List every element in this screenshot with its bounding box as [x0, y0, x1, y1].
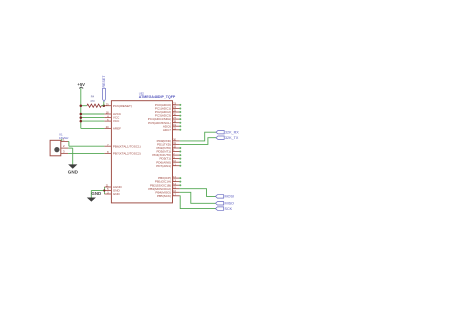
svg-text:GND: GND — [113, 192, 121, 196]
svg-text:PB7(XTAL2/TOSC2): PB7(XTAL2/TOSC2) — [113, 152, 141, 156]
svg-text:ADC7: ADC7 — [163, 128, 171, 132]
svg-text:VCC: VCC — [113, 119, 120, 123]
svg-text:RESET: RESET — [102, 75, 106, 88]
svg-text:MISO: MISO — [225, 202, 235, 206]
svg-text:32K_RX: 32K_RX — [225, 131, 239, 135]
svg-text:PB5(SCK): PB5(SCK) — [157, 194, 171, 198]
svg-text:MOSI: MOSI — [225, 195, 234, 199]
svg-text:32K_TX: 32K_TX — [225, 136, 239, 140]
svg-text:AREF: AREF — [113, 127, 121, 131]
svg-text:2: 2 — [63, 144, 65, 148]
svg-text:+5V: +5V — [77, 82, 85, 87]
svg-text:ATMEGA48DIP_TQFP: ATMEGA48DIP_TQFP — [139, 95, 176, 99]
svg-text:GND: GND — [68, 169, 79, 174]
svg-text:PB6(XTAL1/TOSC1): PB6(XTAL1/TOSC1) — [113, 144, 141, 148]
svg-text:SCK: SCK — [225, 207, 233, 211]
svg-text:3: 3 — [63, 150, 65, 154]
svg-text:R4: R4 — [91, 95, 95, 99]
svg-text:PC6(/RESET): PC6(/RESET) — [113, 104, 132, 108]
svg-text:GND: GND — [91, 191, 101, 196]
svg-text:PD7(AIN1): PD7(AIN1) — [156, 164, 171, 168]
svg-text:470: 470 — [90, 99, 95, 103]
